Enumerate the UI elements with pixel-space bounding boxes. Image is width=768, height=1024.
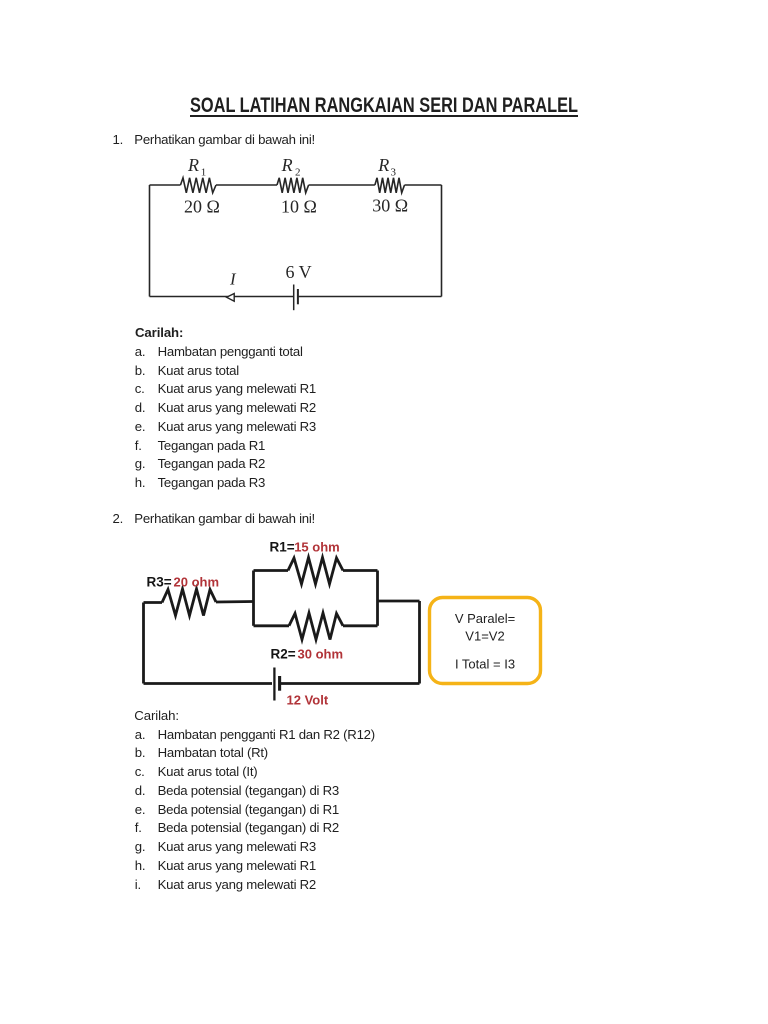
item 1 heading (113, 131, 124, 150)
wire: top segment right of R3 (405, 184, 442, 186)
title (190, 93, 578, 118)
wire: top segment between R2 and R3 (309, 184, 375, 186)
svg-text:15 ohm: 15 ohm (294, 539, 340, 554)
svg-text:30 Ω: 30 Ω (372, 196, 408, 216)
svg-text:I: I (229, 270, 237, 289)
wire: left segment before R3 (144, 601, 163, 604)
svg-text:6 V: 6 V (286, 262, 312, 282)
svg-text:30 ohm: 30 ohm (298, 646, 344, 661)
section 1 list (135, 343, 435, 503)
svg-text:R: R (187, 155, 199, 175)
resistor R2 zigzag (289, 613, 343, 640)
svg-text:V1=V2: V1=V2 (465, 628, 504, 643)
svg-text:I Total = I3: I Total = I3 (455, 657, 515, 672)
svg-text:R: R (281, 155, 293, 175)
resistor R1 zigzag (181, 178, 217, 193)
wire: bottom segment right of battery (299, 296, 442, 298)
wire: parallel block right vertical (376, 571, 379, 626)
battery B1 short plate (297, 289, 299, 304)
section 1 Carilah (135, 324, 183, 343)
resistor R1 zigzag (288, 558, 343, 585)
circuit 2 schematic (135, 530, 555, 712)
wire: top branch left of R1 (254, 569, 289, 572)
svg-text:1: 1 (201, 167, 207, 179)
wire: circuit-1 right vertical (441, 185, 443, 297)
wire: circuit-2 left vertical (142, 603, 145, 684)
battery B1 long plate (293, 285, 295, 311)
svg-text:R1=: R1= (270, 539, 295, 554)
section 2 list (135, 726, 455, 906)
circuit 1 schematic (140, 150, 452, 320)
battery B2 short plate (278, 676, 281, 691)
svg-text:3: 3 (391, 167, 397, 179)
wire: circuit-2 right vertical (418, 601, 421, 684)
wire: top branch right of R1 (343, 569, 378, 572)
svg-text:R: R (377, 155, 389, 175)
item 2 heading (113, 510, 124, 529)
resistor R3 zigzag (375, 178, 405, 193)
note box rounded rectangle (430, 598, 541, 684)
wire: top segment between R1 and R2 (216, 184, 277, 186)
svg-text:V Paralel=: V Paralel= (455, 611, 515, 626)
wire: bottom segment right of battery (281, 682, 420, 685)
current arrow on bottom wire (227, 294, 235, 302)
svg-text:R3=: R3= (147, 574, 172, 589)
wire: segment R3 to parallel block (216, 600, 254, 603)
section 2 Carilah (134, 707, 179, 726)
svg-text:R2=: R2= (271, 646, 296, 661)
wire: bottom branch left of R2 (254, 624, 290, 627)
resistor R3 zigzag (162, 589, 216, 616)
svg-text:20 Ω: 20 Ω (184, 197, 220, 217)
wire: parallel block left vertical (252, 571, 255, 626)
wire: bottom branch right of R2 (343, 624, 378, 627)
resistor R2 zigzag (277, 178, 309, 193)
wire: bottom segment left of battery (144, 682, 273, 685)
wire: top segment left of R1 (150, 184, 181, 186)
svg-text:2: 2 (295, 167, 301, 179)
svg-text:10 Ω: 10 Ω (281, 197, 317, 217)
svg-text:12 Volt: 12 Volt (287, 692, 329, 707)
battery B2 long plate (273, 668, 275, 701)
wire: circuit-1 left vertical (149, 185, 151, 297)
wire: bottom segment left of battery (150, 296, 294, 298)
wire: middle right segment (378, 600, 420, 603)
svg-text:20 ohm: 20 ohm (174, 574, 220, 589)
